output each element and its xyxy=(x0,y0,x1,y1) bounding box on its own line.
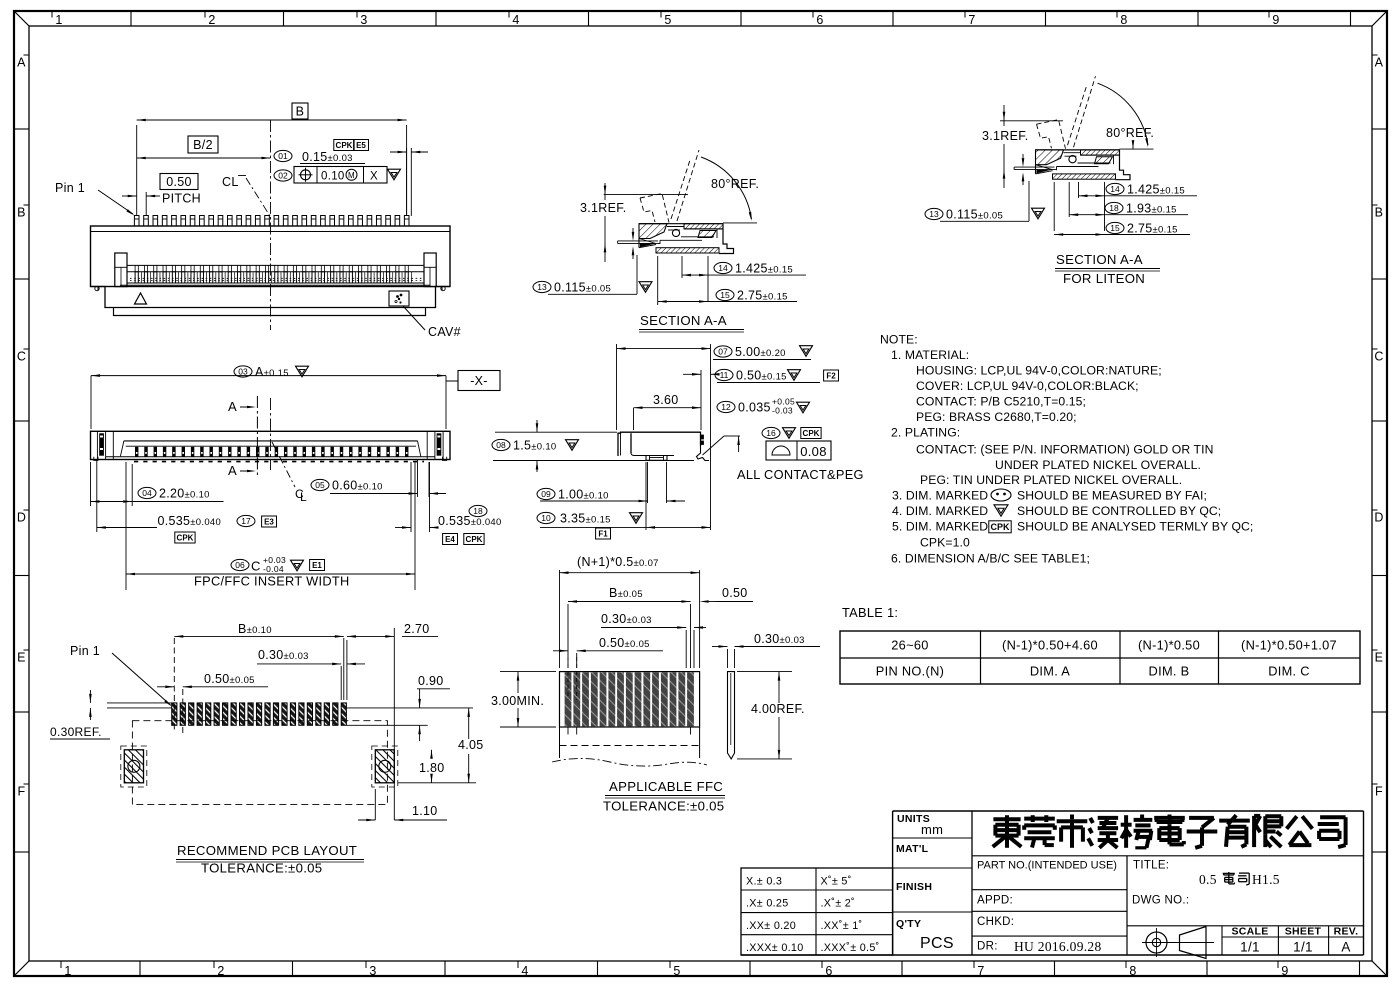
svg-text:SHOULD BE ANALYSED TERMLY: SHOULD BE ANALYSED TERMLY BY QC; xyxy=(1017,520,1253,534)
svg-text:F: F xyxy=(18,785,26,799)
svg-text:5.00±0.20: 5.00±0.20 xyxy=(735,345,786,359)
VIEW3 recommended pcb layout: pad row xyxy=(172,703,177,725)
svg-text:.XX± 0.20: .XX± 0.20 xyxy=(746,920,796,932)
view5 datum line xyxy=(710,344,712,530)
view2 datum -X- xyxy=(446,380,458,382)
svg-text:07: 07 xyxy=(718,347,728,357)
view2 dim 03 A±0.15 xyxy=(90,376,92,429)
view2 end details xyxy=(96,431,98,459)
svg-text:(N-1)*0.50+1.07: (N-1)*0.50+1.07 xyxy=(1241,638,1337,653)
svg-text:1: 1 xyxy=(64,964,71,978)
liteon dim14 1.425 xyxy=(1079,195,1198,197)
view1 dim 01 0.15 xyxy=(274,150,292,161)
svg-text:B/2: B/2 xyxy=(193,138,213,152)
svg-text:FOR LITEON: FOR LITEON xyxy=(1063,271,1145,286)
svg-text:E3: E3 xyxy=(264,517,274,526)
svg-text:0.30±0.03: 0.30±0.03 xyxy=(754,632,805,646)
svg-text:26~60: 26~60 xyxy=(891,638,928,653)
svg-text:2.75±0.15: 2.75±0.15 xyxy=(1127,222,1178,236)
svg-text:6. DIMENSION A/B/C SEE TABL: 6. DIMENSION A/B/C SEE TABLE1; xyxy=(891,552,1090,566)
note CPK mark xyxy=(989,521,1011,533)
svg-text:0.30±0.03: 0.30±0.03 xyxy=(601,612,652,626)
view1 CAV# box xyxy=(389,291,409,306)
svg-text:4.05: 4.05 xyxy=(458,738,484,752)
svg-text:3.1REF.: 3.1REF. xyxy=(982,129,1029,143)
svg-text:FINISH: FINISH xyxy=(896,881,932,893)
svg-text:5: 5 xyxy=(664,13,671,27)
svg-text:.XXX± 0.10: .XXX± 0.10 xyxy=(746,942,804,954)
svg-text:4: 4 xyxy=(521,964,528,978)
svg-text:HOUSING: LCP,UL 94V-0,COLOR:: HOUSING: LCP,UL 94V-0,COLOR:NATURE; xyxy=(916,364,1162,378)
svg-text:ALL CONTACT&PEG: ALL CONTACT&PEG xyxy=(737,467,864,482)
svg-text:0.50±0.05: 0.50±0.05 xyxy=(599,636,650,650)
svg-text:A: A xyxy=(228,463,237,478)
liteon extension lines xyxy=(1053,182,1055,231)
svg-text:1.93±0.15: 1.93±0.15 xyxy=(1126,202,1177,216)
svg-text:CHKD:: CHKD: xyxy=(977,916,1014,928)
svg-text:04: 04 xyxy=(142,488,152,498)
svg-text:CONTACT: P/B C5210,T=0.15;: CONTACT: P/B C5210,T=0.15; xyxy=(916,395,1086,409)
section A-A LITEON body xyxy=(1036,149,1120,151)
view3 0.30REF strip lines xyxy=(107,702,172,704)
view1 dim B xyxy=(136,125,138,216)
svg-text:0.5: 0.5 xyxy=(1199,872,1217,887)
svg-text:E4: E4 xyxy=(445,535,455,544)
svg-text:RECOMMEND PCB LAYOUT: RECOMMEND PCB LAYOUT xyxy=(177,843,357,858)
view2 teeth xyxy=(106,456,435,458)
svg-text:0.115±0.05: 0.115±0.05 xyxy=(946,208,1003,222)
svg-text:C: C xyxy=(251,559,261,574)
svg-text:D: D xyxy=(1374,511,1383,525)
svg-text:3. DIM. MARKED: 3. DIM. MARKED xyxy=(892,489,988,503)
svg-text:H1.5: H1.5 xyxy=(1252,872,1280,887)
svg-text:4.00REF.: 4.00REF. xyxy=(751,702,805,716)
view1 top pin row xyxy=(134,216,139,227)
svg-text:(N+1)*0.5±0.07: (N+1)*0.5±0.07 xyxy=(577,555,659,569)
view5 dim 07 5.00 xyxy=(616,344,618,430)
svg-text:0.90: 0.90 xyxy=(418,674,444,688)
svg-text:.XX˚± 1˚: .XX˚± 1˚ xyxy=(821,920,863,932)
svg-text:CPK: CPK xyxy=(803,429,820,438)
svg-text:14: 14 xyxy=(1110,184,1120,194)
svg-text:(N-1)*0.50+4.60: (N-1)*0.50+4.60 xyxy=(1002,638,1098,653)
view2 centerline xyxy=(270,398,272,470)
svg-text:COVER: LCP,UL 94V-0,COLOR:BL: COVER: LCP,UL 94V-0,COLOR:BLACK; xyxy=(916,379,1139,393)
svg-text:-X-: -X- xyxy=(470,374,488,388)
svg-text:18: 18 xyxy=(1109,203,1119,213)
svg-text:1.5±0.10: 1.5±0.10 xyxy=(513,439,557,453)
svg-text:1: 1 xyxy=(55,13,62,27)
svg-text:HU 2016.09.28: HU 2016.09.28 xyxy=(1014,939,1102,954)
section A-A body xyxy=(639,223,723,225)
svg-text:L: L xyxy=(300,490,307,504)
svg-text:.XXX˚± 0.5˚: .XXX˚± 0.5˚ xyxy=(821,942,880,954)
secAA dim15 2.75 xyxy=(657,256,659,305)
svg-text:SHOULD BE MEASURED BY FAI;: SHOULD BE MEASURED BY FAI; xyxy=(1017,489,1207,503)
svg-text:CL: CL xyxy=(222,175,239,189)
svg-text:01: 01 xyxy=(278,151,288,161)
svg-text:4. DIM. MARKED: 4. DIM. MARKED xyxy=(892,504,988,518)
svg-text:0.035: 0.035 xyxy=(738,401,771,415)
svg-text:Pin 1: Pin 1 xyxy=(55,181,85,195)
svg-text:CPK: CPK xyxy=(177,533,194,542)
svg-text:80°REF.: 80°REF. xyxy=(711,177,759,191)
view2 dim 05 0.60 xyxy=(311,479,329,490)
view5 dim 16 flatness xyxy=(762,427,780,438)
svg-text:3.35±0.15: 3.35±0.15 xyxy=(560,512,611,526)
svg-text:APPLICABLE FFC: APPLICABLE FFC xyxy=(609,779,723,794)
zone numbers bottom xyxy=(60,961,62,968)
liteon dim18 1.93 xyxy=(1069,214,1188,216)
svg-text:-0.04: -0.04 xyxy=(263,564,284,574)
svg-text:A: A xyxy=(228,399,237,414)
svg-text:UNDER PLATED NICKEL OVERALL: UNDER PLATED NICKEL OVERALL. xyxy=(995,458,1201,472)
svg-text:CPK: CPK xyxy=(990,522,1010,532)
svg-text:PART NO.(INTENDED USE): PART NO.(INTENDED USE) xyxy=(977,860,1117,872)
svg-text:C: C xyxy=(17,350,26,364)
VIEW1 connector top view: body xyxy=(91,226,451,287)
svg-text:SHEET: SHEET xyxy=(1285,926,1322,938)
view1 dim 0.50 PITCH xyxy=(160,174,198,190)
svg-text:DIM. C: DIM. C xyxy=(1268,664,1310,679)
view5 dim 09 1.00 xyxy=(647,462,649,503)
svg-text:1. MATERIAL:: 1. MATERIAL: xyxy=(891,348,969,362)
svg-text:0.50: 0.50 xyxy=(722,586,748,600)
svg-text:4: 4 xyxy=(512,13,519,27)
svg-text:2: 2 xyxy=(208,13,215,27)
svg-text:A±0.15: A±0.15 xyxy=(255,365,289,379)
svg-text:DWG NO.:: DWG NO.: xyxy=(1132,895,1189,907)
svg-text:SCALE: SCALE xyxy=(1231,926,1268,938)
svg-text:B: B xyxy=(17,206,26,220)
svg-text:1.00±0.10: 1.00±0.10 xyxy=(558,488,609,502)
tolerance table xyxy=(741,868,893,955)
svg-text:TOLERANCE:±0.05: TOLERANCE:±0.05 xyxy=(201,861,322,876)
svg-text:1.80: 1.80 xyxy=(419,761,445,775)
svg-text:D: D xyxy=(17,511,26,525)
view1 right end block xyxy=(424,253,436,287)
zone dividers top xyxy=(130,11,132,26)
view5 right contour + foot xyxy=(697,446,710,461)
svg-text:F2: F2 xyxy=(826,371,836,380)
svg-text:16: 16 xyxy=(766,428,776,438)
svg-text:DR:: DR: xyxy=(977,941,998,953)
svg-text:PEG: TIN UNDER PLATED NICK: PEG: TIN UNDER PLATED NICKEL OVERALL. xyxy=(920,473,1182,487)
view2 dim 04 2.20 xyxy=(138,487,156,498)
zone dividers left/right xyxy=(14,128,29,130)
svg-text:Pin 1: Pin 1 xyxy=(70,644,100,658)
part/appd/chkd/dr rows xyxy=(972,855,1364,857)
view2 CL symbol leader xyxy=(272,442,295,487)
view1 inner comb band xyxy=(127,264,424,266)
svg-text:80°REF.: 80°REF. xyxy=(1106,126,1154,140)
svg-text:0.535±0.040: 0.535±0.040 xyxy=(158,514,222,528)
svg-text:05: 05 xyxy=(315,480,325,490)
svg-text:X: X xyxy=(370,170,378,182)
svg-text:1.425±0.15: 1.425±0.15 xyxy=(1127,183,1185,197)
svg-text:PIN NO.(N): PIN NO.(N) xyxy=(876,664,944,679)
svg-text:1/1: 1/1 xyxy=(1240,940,1260,955)
svg-text:E: E xyxy=(1375,651,1384,665)
svg-text:SECTION A-A: SECTION A-A xyxy=(640,313,727,328)
svg-text:0.50: 0.50 xyxy=(166,175,192,189)
svg-text:B±0.05: B±0.05 xyxy=(609,586,643,600)
svg-text:REV.: REV. xyxy=(1334,926,1359,938)
svg-text:E1: E1 xyxy=(312,561,322,570)
view1 bottom step xyxy=(91,287,451,308)
VIEW2 front view body xyxy=(91,431,451,459)
svg-text:CPK: CPK xyxy=(336,141,353,150)
view5 dim 10 3.35 xyxy=(537,512,555,523)
svg-text:TITLE:: TITLE: xyxy=(1133,860,1169,872)
svg-text:B: B xyxy=(1375,206,1384,220)
svg-text:6: 6 xyxy=(825,964,832,978)
svg-text:7: 7 xyxy=(977,964,984,978)
svg-text:3.00MIN.: 3.00MIN. xyxy=(491,694,544,708)
svg-text:1/1: 1/1 xyxy=(1293,940,1313,955)
svg-text:SHOULD BE CONTROLLED BY QC: SHOULD BE CONTROLLED BY QC; xyxy=(1017,504,1221,518)
svg-text:.X˚± 2˚: .X˚± 2˚ xyxy=(821,898,855,910)
svg-text:7: 7 xyxy=(968,13,975,27)
svg-text:F: F xyxy=(1375,785,1383,799)
view1 dim B/2 xyxy=(137,157,271,159)
svg-text:0.535±0.040: 0.535±0.040 xyxy=(438,514,502,528)
svg-text:03: 03 xyxy=(238,367,248,377)
svg-text:DIM. A: DIM. A xyxy=(1030,664,1070,679)
svg-text:2.20±0.10: 2.20±0.10 xyxy=(159,487,210,501)
svg-text:0.30REF.: 0.30REF. xyxy=(50,725,102,739)
svg-text:6: 6 xyxy=(816,13,823,27)
svg-text:APPD:: APPD: xyxy=(977,895,1013,907)
svg-text:A: A xyxy=(1375,56,1384,70)
svg-text:5. DIM. MARKED: 5. DIM. MARKED xyxy=(892,520,988,534)
svg-text:X.± 0.3: X.± 0.3 xyxy=(746,876,782,888)
svg-text:B: B xyxy=(296,105,305,119)
view6 side sliver xyxy=(728,672,735,759)
svg-text:3.60: 3.60 xyxy=(653,393,679,407)
svg-text:M: M xyxy=(348,171,355,180)
svg-text:-0.03: -0.03 xyxy=(772,406,793,416)
svg-text:0.08: 0.08 xyxy=(800,444,827,459)
svg-text:TOLERANCE:±0.05: TOLERANCE:±0.05 xyxy=(603,799,724,814)
svg-text:B±0.10: B±0.10 xyxy=(238,622,272,636)
view1 left end block xyxy=(115,253,127,287)
svg-text:0.60±0.10: 0.60±0.10 xyxy=(332,479,383,493)
view5 dim 3.60 xyxy=(633,408,635,430)
svg-text:MAT'L: MAT'L xyxy=(896,843,929,855)
svg-text:PITCH: PITCH xyxy=(162,192,201,206)
svg-text:2: 2 xyxy=(217,964,224,978)
svg-text:PEG: BRASS C2680,T=0.20;: PEG: BRASS C2680,T=0.20; xyxy=(916,410,1077,424)
svg-text:06: 06 xyxy=(235,560,245,570)
zone dividers bottom xyxy=(139,961,141,976)
liteon dim15 2.75 xyxy=(1054,234,1190,236)
note FAI mark xyxy=(991,489,1011,501)
svg-text:2.70: 2.70 xyxy=(404,622,430,636)
view5 dim 12 0.035 xyxy=(717,401,735,412)
svg-text:TABLE 1:: TABLE 1: xyxy=(842,605,898,620)
scale/sheet/rev xyxy=(1221,926,1223,955)
svg-text:3.1REF.: 3.1REF. xyxy=(580,201,627,215)
svg-text:A: A xyxy=(1341,940,1350,955)
frame corner diagonals xyxy=(14,11,29,26)
svg-text:09: 09 xyxy=(541,489,551,499)
view3 dashed body outline xyxy=(132,721,387,805)
view2 mouth xyxy=(124,440,418,442)
view1 dim 02 position frame xyxy=(274,170,292,181)
view5 pegs xyxy=(646,456,667,461)
svg-text:12: 12 xyxy=(721,402,731,412)
view2 dim 18 0.535 right xyxy=(469,505,487,516)
svg-text:E5: E5 xyxy=(356,141,366,150)
svg-text:9: 9 xyxy=(1281,964,1288,978)
svg-text:3: 3 xyxy=(369,964,376,978)
svg-text:CONTACT: (SEE P/N. INFORMAT: CONTACT: (SEE P/N. INFORMATION) GOLD OR … xyxy=(916,443,1214,457)
svg-text:0.50±0.15: 0.50±0.15 xyxy=(736,369,787,383)
view5 dim 08 1.5 xyxy=(492,439,510,450)
svg-text:PCS: PCS xyxy=(920,935,954,952)
third-angle projection symbol xyxy=(1146,932,1167,953)
middle column UNITS/MATL/FINISH/QTY xyxy=(893,837,972,839)
svg-text:1.425±0.15: 1.425±0.15 xyxy=(735,262,793,276)
svg-text:8: 8 xyxy=(1120,13,1127,27)
svg-text:14: 14 xyxy=(718,263,728,273)
zone numbers top xyxy=(51,11,53,18)
svg-text:CPK: CPK xyxy=(466,535,483,544)
view2 dashes below (pin tips) xyxy=(134,461,424,463)
view6 conductor centerline ticks xyxy=(567,657,569,700)
svg-text:9: 9 xyxy=(1272,13,1279,27)
svg-text:2. PLATING:: 2. PLATING: xyxy=(891,426,960,440)
svg-text:Q'TY: Q'TY xyxy=(896,918,921,930)
svg-text:X˚± 5˚: X˚± 5˚ xyxy=(821,876,852,888)
svg-text:08: 08 xyxy=(496,440,506,450)
svg-text:C: C xyxy=(1374,350,1383,364)
svg-text:3: 3 xyxy=(360,13,367,27)
view2 dim 06 C insert width xyxy=(231,559,249,570)
note QC triangle mark xyxy=(994,505,1008,516)
svg-text:0.115±0.05: 0.115±0.05 xyxy=(554,281,611,295)
svg-text:.X± 0.25: .X± 0.25 xyxy=(746,898,789,910)
svg-text:17: 17 xyxy=(241,516,251,526)
svg-text:5: 5 xyxy=(673,964,680,978)
liteon dim13 0.115 xyxy=(925,208,943,219)
svg-text:02: 02 xyxy=(278,171,288,181)
title block outline xyxy=(893,810,1364,812)
svg-text:SECTION A-A: SECTION A-A xyxy=(1056,252,1143,267)
svg-text:F1: F1 xyxy=(598,529,608,538)
view1 centerline CL xyxy=(270,120,272,330)
secAA dim14 1.425 xyxy=(681,256,683,278)
view3 left mounting pad xyxy=(124,750,143,783)
secAA dim13 0.115 xyxy=(533,281,551,292)
svg-text:1.10: 1.10 xyxy=(412,804,438,818)
svg-text:mm: mm xyxy=(921,822,943,837)
VIEW6 applicable FFC band xyxy=(560,672,700,727)
svg-text:A: A xyxy=(17,56,26,70)
svg-text:NOTE:: NOTE: xyxy=(880,333,918,347)
svg-text:CPK=1.0: CPK=1.0 xyxy=(920,536,970,550)
svg-text:10: 10 xyxy=(541,513,551,523)
svg-text:0.50±0.05: 0.50±0.05 xyxy=(204,672,255,686)
svg-text:2.75±0.15: 2.75±0.15 xyxy=(737,289,788,303)
svg-text:(N-1)*0.50: (N-1)*0.50 xyxy=(1138,638,1200,653)
svg-text:13: 13 xyxy=(929,209,939,219)
svg-text:0.15±0.03: 0.15±0.03 xyxy=(302,150,353,164)
view3 right mounting pad xyxy=(375,750,394,783)
svg-text:15: 15 xyxy=(1110,223,1120,233)
view6 ffc sides below xyxy=(559,727,561,758)
svg-text:0.30±0.03: 0.30±0.03 xyxy=(258,648,309,662)
company name CJK (drawn strokes) xyxy=(993,817,1020,821)
view1 CPK E5 boxes xyxy=(334,140,354,151)
view5 dim 11 0.50 xyxy=(700,370,702,430)
view2 section cut A-A xyxy=(256,396,258,476)
svg-text:DIM. B: DIM. B xyxy=(1149,664,1190,679)
svg-text:E: E xyxy=(17,651,26,665)
svg-text:15: 15 xyxy=(720,290,730,300)
svg-text:18: 18 xyxy=(473,506,483,516)
view1 pin1 triangle marker xyxy=(135,293,147,304)
svg-text:FPC/FFC INSERT WIDTH: FPC/FFC INSERT WIDTH xyxy=(194,574,350,589)
view1 CAV# leader and label xyxy=(403,306,425,330)
VIEW5 side view body xyxy=(618,432,701,456)
svg-text:0.10: 0.10 xyxy=(321,170,345,182)
svg-text:13: 13 xyxy=(537,282,547,292)
svg-text:8: 8 xyxy=(1129,964,1136,978)
svg-text:CAV#: CAV# xyxy=(428,325,461,339)
view5 pcb base line xyxy=(493,460,694,462)
svg-text:11: 11 xyxy=(720,370,729,380)
